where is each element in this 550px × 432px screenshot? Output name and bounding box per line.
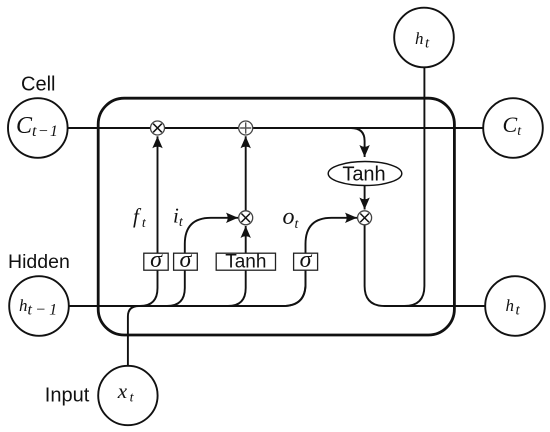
terminal: h_t top circle xyxy=(394,8,454,68)
svg-text:Cell: Cell xyxy=(21,74,55,96)
box: sigma3 output gate xyxy=(294,247,318,273)
wire: cell line branch down to Tanh oval xyxy=(351,128,365,157)
wire: candidate branch up to Tanh box xyxy=(228,270,246,306)
svg-text:it: it xyxy=(173,204,184,231)
terminal: h_{t-1} circle xyxy=(9,276,69,336)
wire: forget gate line sigma1 to multiply node with arrow xyxy=(157,136,159,253)
svg-text:σ: σ xyxy=(150,247,163,273)
wire: output gate curve sigma3 to output multiply node o_t xyxy=(306,218,358,253)
wire: forget gate branch up to sigma1 xyxy=(140,270,158,306)
box: sigma2 input gate xyxy=(174,247,198,273)
wire: input gate curve sigma2 to multiply node i_t xyxy=(185,218,238,253)
terminal: C_t circle xyxy=(483,98,543,158)
svg-text:σ: σ xyxy=(300,247,313,273)
svg-text:Hidden: Hidden xyxy=(8,251,70,273)
wire: input x_t rising and joining hidden line xyxy=(128,306,139,366)
terminal: x_t input circle xyxy=(98,366,157,425)
wire: hidden input line h_{t-1} xyxy=(69,270,306,306)
wire: output U-turn up to h_t top xyxy=(365,67,425,306)
wire: output line to h_t right xyxy=(390,305,485,307)
wire: cell state line C_{t-1} to C_t xyxy=(68,127,484,129)
wire: output gate branch up to sigma3 xyxy=(283,270,306,306)
svg-text:ot: ot xyxy=(283,204,300,232)
wire: Tanh oval to output multiply node xyxy=(364,186,366,210)
wire: candidate line Tanh box to multiply node xyxy=(245,226,247,253)
wire: multiply node up to add node xyxy=(245,136,247,211)
svg-text:Tanh: Tanh xyxy=(342,163,385,185)
terminal: C_{t-1} circle xyxy=(8,98,68,158)
oval: Tanh activation xyxy=(328,162,402,186)
node: forget multiply circle-times xyxy=(151,121,165,135)
svg-text:Input: Input xyxy=(45,384,90,406)
box: Tanh candidate xyxy=(216,252,275,273)
node: input multiply circle-times xyxy=(239,211,253,225)
svg-text:ft: ft xyxy=(133,204,147,231)
svg-text:σ: σ xyxy=(179,247,192,273)
LSTM cell body rounded rectangle xyxy=(98,98,454,335)
box: sigma1 forget gate xyxy=(144,247,168,273)
node: add circle-plus xyxy=(239,121,253,135)
wire: input gate branch up to sigma2 xyxy=(167,270,185,306)
svg-text:Tanh: Tanh xyxy=(225,252,266,273)
node: output multiply circle-times xyxy=(358,211,372,225)
terminal: h_t right circle xyxy=(485,276,545,336)
